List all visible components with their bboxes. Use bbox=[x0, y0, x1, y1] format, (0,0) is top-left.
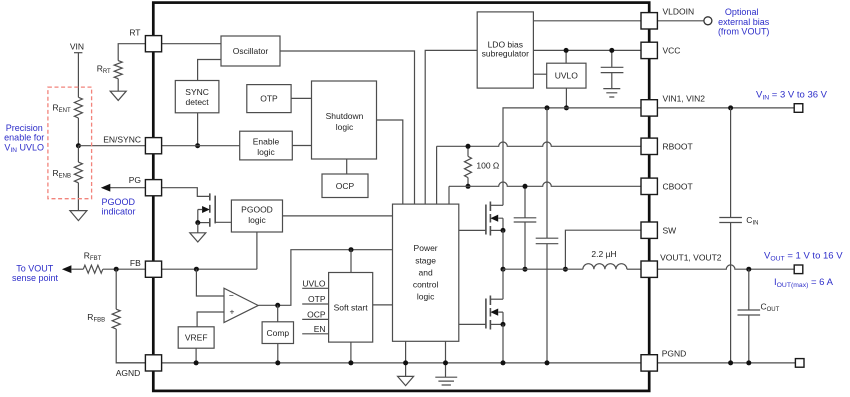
svg-text:logic: logic bbox=[248, 215, 266, 225]
pin VIN1, VIN2 bbox=[641, 100, 657, 116]
node CBOOT cap dot bbox=[523, 184, 528, 189]
svg-text:RT: RT bbox=[129, 28, 140, 38]
wire AGND/PGND rail bbox=[116, 362, 795, 364]
wire shutdown logic to power stage bbox=[377, 120, 403, 204]
wire C-HF to PGND rail bbox=[546, 244, 548, 363]
transistor Q3 drain stub bbox=[490, 298, 503, 300]
transistor Q2 body arrow bbox=[490, 215, 498, 222]
svg-text:EN: EN bbox=[314, 324, 326, 334]
power stage and control logic box bbox=[393, 204, 459, 341]
wire Q3 source to PGND rail bbox=[502, 324, 504, 363]
wire SYNC detect to EN line bbox=[197, 113, 199, 146]
svg-text:VIN UVLO: VIN UVLO bbox=[4, 142, 44, 154]
wire R_ENT to EN node bbox=[77, 118, 79, 146]
capacitor C-BOOT riser bbox=[524, 186, 526, 218]
wire PG pin to indicator arrow bbox=[109, 187, 145, 189]
ground (below Q1) bbox=[190, 233, 206, 242]
wire RBOOT drop to power stage bbox=[436, 146, 438, 204]
node C-BOOT/SW dot bbox=[523, 267, 528, 272]
soft start box bbox=[329, 273, 373, 343]
node 100 Ohm bottom dot bbox=[466, 184, 471, 189]
wire soft start top riser bbox=[350, 250, 352, 273]
svg-text:PG: PG bbox=[129, 175, 141, 185]
svg-text:Enable: Enable bbox=[253, 137, 280, 147]
svg-text:control: control bbox=[413, 280, 439, 290]
svg-text:external bias: external bias bbox=[718, 17, 770, 27]
node SYNC/EN junction dot bbox=[195, 143, 200, 148]
svg-text:(from VOUT): (from VOUT) bbox=[718, 27, 770, 37]
node C_OUT gnd dot bbox=[746, 360, 751, 365]
node power stage pgnd dot bbox=[443, 360, 448, 365]
node SW link dot bbox=[563, 267, 568, 272]
arrow PGOOD indicator bbox=[101, 184, 111, 192]
wire comp branch bbox=[277, 305, 279, 322]
terminal square PGND bbox=[795, 359, 804, 368]
svg-text:OTP: OTP bbox=[260, 94, 278, 104]
wire FB pin to PGOOD drop bbox=[162, 268, 257, 270]
wire VOUT pin to VOUT terminal (hop over C_IN) bbox=[658, 265, 794, 269]
transistor Q1 gate bar bbox=[214, 196, 216, 224]
resistor 100 Ohm (RBOOT-CBOOT) bbox=[467, 146, 469, 186]
wire C_OUT to PGND rail bbox=[748, 315, 750, 363]
pin PG bbox=[145, 180, 161, 196]
svg-text:Optional: Optional bbox=[725, 7, 759, 17]
wire power stage to power ground bbox=[445, 341, 447, 377]
node Q3 source dot bbox=[501, 322, 506, 327]
wire CBOOT drop to power stage bbox=[448, 186, 450, 204]
transistor Q3 (low-side FET) drain wire bbox=[502, 269, 504, 299]
ground (below R_ENB) bbox=[70, 211, 87, 221]
svg-text:RENT: RENT bbox=[53, 103, 71, 115]
svg-text:VOUT = 1 V to 16 V: VOUT = 1 V to 16 V bbox=[764, 251, 843, 263]
transistor Q3 gate bar bbox=[485, 299, 487, 329]
svg-text:Precision: Precision bbox=[6, 123, 43, 133]
pin RBOOT bbox=[641, 138, 657, 154]
svg-text:COUT: COUT bbox=[761, 302, 780, 314]
resistor R_ENB bbox=[74, 162, 82, 183]
wire FB node down to R_FBB bbox=[115, 269, 117, 309]
node Q3 pgnd dot bbox=[501, 360, 506, 365]
wire LDO to VCC pin bbox=[533, 49, 641, 51]
resistor R_FBT bbox=[83, 265, 103, 273]
transistor Q3 gate wire bbox=[459, 323, 486, 325]
svg-text:OCP: OCP bbox=[336, 181, 355, 191]
capacitor C_OUT plates bbox=[738, 310, 761, 315]
transistor Q1 gate wire to PGOOD logic bbox=[215, 221, 231, 223]
transistor Q2 channel bbox=[489, 202, 491, 236]
node C_OUT top dot bbox=[746, 267, 751, 272]
oscillator U-OSC box bbox=[221, 36, 280, 66]
wire C_IN to PGND rail bbox=[730, 223, 732, 363]
svg-text:indicator: indicator bbox=[102, 207, 136, 217]
svg-text:Shutdown: Shutdown bbox=[326, 111, 364, 121]
capacitor C_IN riser bbox=[730, 108, 732, 218]
wire SW node to inductor bbox=[503, 268, 583, 270]
inductor L1 2.2uH bbox=[583, 264, 627, 270]
svg-text:detect: detect bbox=[186, 97, 210, 107]
svg-text:CIN: CIN bbox=[746, 215, 758, 227]
wire C-VCC to ground bbox=[611, 73, 613, 89]
PGOOD logic box bbox=[231, 200, 282, 232]
node VCC cap dot bbox=[609, 48, 614, 53]
svg-text:Power: Power bbox=[414, 243, 438, 253]
svg-text:Oscillator: Oscillator bbox=[233, 46, 269, 56]
wire arrow to R_FBT bbox=[71, 268, 83, 270]
terminal circle (optional external bias) bbox=[704, 17, 712, 25]
svg-text:OCP: OCP bbox=[307, 309, 326, 319]
capacitor C-HF riser from VIN bbox=[546, 108, 548, 238]
wire UVLO to VIN line bbox=[565, 88, 567, 108]
svg-text:AGND: AGND bbox=[116, 368, 141, 378]
arrow to VOUT sense point bbox=[62, 265, 72, 273]
capacitor C-HF plates bbox=[536, 238, 559, 244]
svg-text:PGOOD: PGOOD bbox=[241, 205, 273, 215]
ground (below R_RT) bbox=[110, 91, 126, 100]
wire SYNC detect to oscillator bbox=[198, 60, 221, 81]
capacitor C-BOOT plates bbox=[514, 218, 537, 222]
wire RT pin to R_RT bbox=[118, 44, 145, 61]
svg-text:+: + bbox=[230, 307, 235, 317]
wire RT pin to oscillator bbox=[162, 43, 221, 45]
svg-text:RRT: RRT bbox=[97, 64, 111, 76]
shutdown logic box bbox=[312, 81, 377, 159]
wire EN node to EN/SYNC pin bbox=[78, 145, 145, 147]
svg-text:VREF: VREF bbox=[185, 333, 208, 343]
wire EN input to soft start bbox=[302, 333, 328, 335]
node VREF gnd dot bbox=[194, 360, 199, 365]
svg-text:Soft start: Soft start bbox=[334, 302, 369, 312]
transistor Q3 body wire bbox=[498, 312, 503, 324]
UVLO box bbox=[547, 63, 586, 88]
wire oscillator to power stage bbox=[280, 51, 415, 204]
ground (power stage, triangle) bbox=[398, 376, 414, 385]
wire comp to AGND rail bbox=[277, 344, 279, 363]
wire PG pin to transistor Q1 drain bbox=[162, 188, 210, 197]
wire LDO to power stage (left drop) bbox=[425, 50, 477, 204]
wire LDO to UVLO bbox=[533, 73, 546, 75]
capacitor C_IN plates bbox=[719, 218, 742, 223]
node FB internal junction dot bbox=[194, 267, 199, 272]
wire FB to error amp inverting input bbox=[196, 269, 224, 296]
wire R_ENB to ground bbox=[77, 183, 79, 211]
resistor R_RT bbox=[114, 61, 122, 79]
transistor Q3 channel bbox=[489, 296, 491, 330]
wire VLDOIN pin to external bias terminal bbox=[657, 20, 704, 22]
wire C-BOOT to SW node bbox=[524, 222, 526, 269]
wire EN/SYNC pin to enable logic bbox=[162, 145, 240, 147]
wire CBOOT line (with crossover hops) bbox=[449, 182, 641, 186]
wire OTP input to soft start bbox=[302, 303, 328, 305]
svg-text:sense point: sense point bbox=[12, 273, 59, 283]
capacitor C_OUT riser bbox=[748, 269, 750, 310]
node C_IN gnd dot bbox=[728, 360, 733, 365]
node cap2/VIN dot bbox=[545, 105, 550, 110]
svg-text:PGND: PGND bbox=[662, 349, 687, 359]
svg-text:2.2 µH: 2.2 µH bbox=[591, 249, 616, 259]
precision enable highlight box (red dashed) bbox=[48, 87, 92, 199]
svg-text:subregulator: subregulator bbox=[482, 49, 529, 59]
transistor Q3 source stub bbox=[490, 323, 503, 325]
svg-text:VIN1, VIN2: VIN1, VIN2 bbox=[663, 94, 706, 104]
node Q1 source junction dot bbox=[195, 220, 200, 225]
ground (power stage, hatched) bbox=[435, 377, 457, 385]
transistor Q1 source stub bbox=[198, 222, 210, 224]
transistor Q2 gate bar bbox=[485, 205, 487, 235]
svg-text:SW: SW bbox=[663, 225, 677, 235]
svg-text:PGOOD: PGOOD bbox=[102, 197, 136, 207]
transistor Q1 body wire bbox=[198, 210, 202, 223]
svg-text:RBOOT: RBOOT bbox=[663, 141, 693, 151]
pin SW bbox=[641, 222, 657, 238]
terminal square VOUT bbox=[794, 265, 803, 274]
wire inductor to VOUT pin bbox=[627, 268, 641, 270]
node FB external junction dot bbox=[114, 267, 119, 272]
ground (VCC cap, hatched) bbox=[603, 89, 620, 97]
wire power stage to analog ground bbox=[405, 341, 407, 376]
svg-text:CBOOT: CBOOT bbox=[663, 181, 693, 191]
node C-HF gnd dot bbox=[545, 360, 550, 365]
svg-text:RENB: RENB bbox=[53, 168, 71, 180]
svg-text:SYNC: SYNC bbox=[185, 87, 209, 97]
wire error amp output to power stage bbox=[259, 250, 393, 306]
SYNC detect box bbox=[175, 81, 219, 113]
node SW junction dot bbox=[501, 267, 506, 272]
wire R_FBT to FB pin bbox=[103, 268, 146, 270]
wire PGOOD logic to FB line bbox=[256, 232, 258, 269]
node C_IN top dot bbox=[728, 105, 733, 110]
svg-text:VLDOIN: VLDOIN bbox=[663, 7, 695, 17]
transistor Q1 body arrow bbox=[202, 206, 210, 213]
svg-text:VOUT1, VOUT2: VOUT1, VOUT2 bbox=[660, 253, 722, 263]
node soft start branch dot bbox=[349, 247, 354, 252]
svg-text:logic: logic bbox=[336, 122, 354, 132]
svg-text:To VOUT: To VOUT bbox=[16, 263, 54, 273]
svg-text:−: − bbox=[229, 290, 234, 300]
comp C-COMP box bbox=[262, 322, 293, 344]
VIN terminal tick bbox=[74, 52, 82, 54]
wire RBOOT line (with crossover hops) bbox=[437, 142, 641, 146]
pin VCC bbox=[641, 42, 657, 58]
svg-text:FB: FB bbox=[130, 258, 141, 268]
wire OCP input to soft start bbox=[302, 318, 328, 320]
OCP box bbox=[322, 174, 368, 198]
node power stage agnd dot bbox=[403, 360, 408, 365]
OTP box bbox=[247, 85, 291, 113]
VREF box bbox=[178, 327, 214, 348]
node 100 Ohm top dot bbox=[466, 144, 471, 149]
op-amp U-EA (error amplifier) bbox=[224, 288, 258, 322]
terminal square VIN bbox=[794, 104, 803, 113]
wire Q1 source to ground bbox=[197, 223, 199, 233]
svg-text:RFBT: RFBT bbox=[84, 250, 102, 262]
wire VIN1,VIN2 pin to high-side FET drain bbox=[503, 108, 641, 205]
wire EN node to R_ENB bbox=[77, 146, 79, 162]
pin AGND bbox=[145, 355, 161, 371]
svg-text:logic: logic bbox=[257, 147, 275, 157]
transistor Q2 drain stub bbox=[490, 204, 503, 206]
capacitor C-VCC riser bbox=[611, 50, 613, 67]
transistor Q2 (high-side FET) gate wire bbox=[459, 229, 486, 231]
wire Q2 source to SW node bbox=[502, 230, 504, 269]
wire soft start to AGND rail bbox=[350, 342, 352, 363]
pin VLDOIN bbox=[641, 13, 657, 29]
wire UVLO input to soft start bbox=[302, 287, 328, 289]
svg-text:IOUT(max) = 6 A: IOUT(max) = 6 A bbox=[774, 277, 834, 289]
resistor R_ENT bbox=[74, 97, 82, 118]
wire VREF to error amp non-inverting input bbox=[197, 312, 224, 327]
chip outline U1 (power module) bbox=[153, 3, 649, 391]
transistor Q2 source stub bbox=[490, 229, 503, 231]
svg-text:and: and bbox=[419, 268, 433, 278]
wire OTP to shutdown logic bbox=[291, 97, 311, 99]
svg-text:enable for: enable for bbox=[4, 133, 44, 143]
node error amp output dot bbox=[275, 303, 280, 308]
svg-text:UVLO: UVLO bbox=[302, 278, 326, 288]
wire soft start to power stage bbox=[373, 304, 393, 306]
pin FB bbox=[145, 261, 161, 277]
svg-text:logic: logic bbox=[417, 292, 435, 302]
wire PGOOD logic to power stage bbox=[283, 215, 393, 217]
wire shutdown logic to OCP bbox=[346, 159, 348, 174]
svg-text:stage: stage bbox=[415, 256, 436, 266]
enable logic box bbox=[240, 131, 293, 160]
wire UVLO to VCC line bbox=[565, 50, 567, 63]
node Q2 source dot bbox=[501, 228, 506, 233]
svg-text:Comp: Comp bbox=[266, 328, 289, 338]
pin RT bbox=[145, 36, 161, 52]
node UVLO/VCC dot bbox=[564, 48, 569, 53]
pin VOUT1, VOUT2 bbox=[641, 261, 657, 277]
svg-text:VIN = 3 V to 36 V: VIN = 3 V to 36 V bbox=[756, 90, 828, 102]
wire enable logic to shutdown logic bbox=[292, 145, 311, 147]
transistor Q3 body arrow bbox=[490, 309, 498, 316]
capacitor C-VCC plates bbox=[601, 67, 624, 72]
pin PGND bbox=[641, 355, 657, 371]
wire R_FBB to AGND pin bbox=[116, 329, 145, 363]
svg-text:UVLO: UVLO bbox=[555, 71, 579, 81]
svg-text:VIN: VIN bbox=[70, 41, 84, 51]
svg-text:OTP: OTP bbox=[308, 294, 326, 304]
pin EN/SYNC bbox=[145, 138, 161, 154]
svg-text:EN/SYNC: EN/SYNC bbox=[103, 134, 141, 144]
node UVLO/VIN dot bbox=[564, 105, 569, 110]
node soft start gnd dot bbox=[348, 360, 353, 365]
wire VREF to AGND rail bbox=[195, 348, 197, 363]
svg-text:RFBB: RFBB bbox=[87, 312, 105, 324]
node EN junction dot bbox=[76, 143, 81, 148]
wire R_RT to ground bbox=[117, 79, 119, 92]
svg-text:100 Ω: 100 Ω bbox=[476, 161, 499, 171]
wire LDO to VLDOIN pin bbox=[533, 20, 641, 22]
wire VIN down to R_ENT bbox=[77, 53, 79, 98]
svg-text:VCC: VCC bbox=[663, 46, 681, 56]
pin CBOOT bbox=[641, 178, 657, 194]
transistor Q2 body wire bbox=[498, 218, 503, 230]
node comp gnd dot bbox=[275, 360, 280, 365]
wire SW pin link bbox=[565, 230, 641, 269]
LDO bias subregulator box bbox=[477, 12, 533, 88]
transistor Q1 (PGOOD open-drain FET) channel bbox=[209, 193, 211, 226]
resistor R_FBB bbox=[112, 309, 120, 329]
wire VIN pin to VIN terminal bbox=[657, 107, 794, 109]
